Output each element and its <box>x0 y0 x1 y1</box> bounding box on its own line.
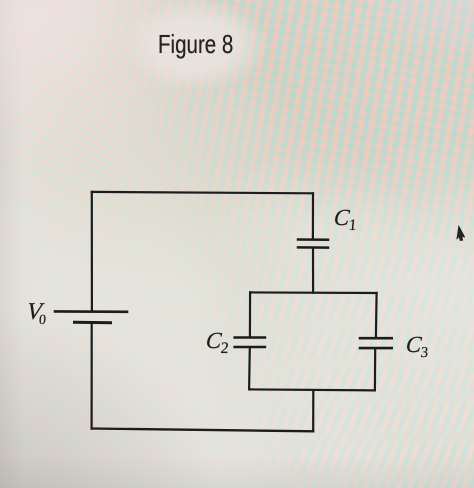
battery V0 top plate (long) <box>55 310 127 313</box>
wire: C1 bottom lead <box>312 249 314 293</box>
wire: inner loop top edge <box>250 291 377 294</box>
capacitor C3 bottom plate <box>360 347 392 350</box>
wire: inner loop left lower (C2 down) <box>248 348 251 389</box>
label C3 <box>405 332 430 358</box>
capacitor C1 top plate <box>298 238 328 241</box>
capacitor C1 bottom plate <box>298 246 328 249</box>
wire: inner loop left upper (to C2) <box>249 292 251 336</box>
capacitor C2 bottom plate <box>235 346 265 349</box>
wire: outer bottom <box>92 429 314 432</box>
wire: bottom riser to inner loop <box>312 390 314 431</box>
wire: inner loop right lower (C3 down) <box>374 349 377 390</box>
mouse cursor <box>457 226 465 240</box>
label C1 <box>333 205 359 231</box>
wire: C1 top lead <box>312 193 314 238</box>
label C2 <box>205 328 231 354</box>
wire: outer left lower (battery - down) <box>90 323 92 429</box>
title "Figure 8" <box>158 29 233 60</box>
wire: inner loop right upper (to C3) <box>375 293 378 337</box>
wire: outer top (node from V0+ to C1) <box>92 192 313 193</box>
wire: outer left upper (to battery +) <box>91 192 93 311</box>
battery V0 bottom plate (short) <box>75 321 111 324</box>
wire: inner loop bottom edge <box>249 389 375 390</box>
capacitor C3 top plate <box>360 337 392 340</box>
capacitor C2 top plate <box>235 336 265 339</box>
label V0 <box>26 299 48 326</box>
